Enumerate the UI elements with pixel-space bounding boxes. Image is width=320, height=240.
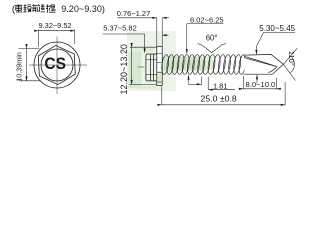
char du: [23, 5, 31, 13]
svg-text:12.20~13.20: 12.20~13.20: [119, 44, 129, 94]
char dian: [15, 4, 22, 12]
110 degree point angle: [283, 48, 297, 80]
dim 25.0 +-0.8: [162, 82, 285, 105]
outer circle (flange): [34, 42, 80, 88]
svg-text:5.37~5.82: 5.37~5.82: [103, 24, 137, 33]
char dui: [41, 4, 50, 12]
screw axis centerline: [138, 66, 162, 68]
flute lines: [244, 56, 278, 67]
svg-text:60°: 60°: [206, 34, 218, 43]
green band fade-out behind threads: [206, 57, 214, 70]
svg-text:25.0 ±0.8: 25.0 ±0.8: [201, 93, 237, 103]
dim 1.81: [201, 77, 235, 90]
char qian: [32, 4, 40, 12]
svg-text:110°: 110°: [287, 51, 296, 66]
green tint wash behind side view: [127, 31, 176, 91]
dim 10.39min: [19, 48, 41, 80]
dim 12.20~13.20: [129, 47, 157, 84]
drill point / pilot: [243, 54, 283, 74]
note (plating) text pseudo-CJK: [15, 4, 56, 12]
hexagon: [38, 44, 76, 85]
svg-text:0.76~1.27: 0.76~1.27: [117, 9, 151, 18]
hex head side view: [146, 54, 157, 81]
flange (washer) side view: [157, 46, 162, 85]
green patch above hex head: [131, 46, 154, 52]
svg-text:6.02~6.25: 6.02~6.25: [190, 15, 224, 24]
centerline vertical (top view): [56, 37, 58, 95]
threads (coil): [161, 54, 247, 74]
dim 8.0~10.0: [238, 76, 281, 90]
svg-text:9.20~9.30): 9.20~9.30): [61, 4, 105, 14]
svg-text:CS: CS: [44, 55, 66, 73]
svg-text:5.30~5.45: 5.30~5.45: [259, 24, 295, 33]
green band behind threads: [162, 57, 206, 72]
svg-text:10.39min: 10.39min: [14, 52, 23, 82]
centerline horizontal (top view): [29, 64, 87, 66]
green patch below hex head: [134, 86, 156, 89]
svg-text:9.32~9.52: 9.32~9.52: [38, 21, 71, 30]
green patch left of hex head: [129, 52, 142, 89]
svg-text:1.81: 1.81: [213, 81, 228, 90]
dim 9.32~9.52 lines: [39, 29, 75, 47]
svg-text:8.0~10.0: 8.0~10.0: [246, 80, 276, 89]
inner circle: [41, 49, 73, 81]
char bian: [49, 5, 55, 12]
